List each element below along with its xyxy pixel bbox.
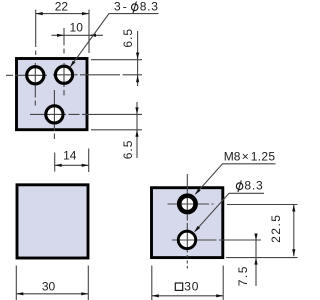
hole A (top-left) [27, 67, 44, 84]
dimension line 7.5 [255, 234, 257, 287]
svg-text:×: × [242, 149, 249, 163]
block body side view 2 [152, 188, 223, 258]
arrow 6.5 top upper (outside) [136, 53, 139, 60]
hole B white interior [54, 65, 74, 85]
leader arrow phi8.3 [194, 226, 200, 232]
extension line bottom edge right (22.5 / 7.5) [226, 257, 298, 259]
centerline hole C vertical [53, 90, 55, 139]
dimension line 10 [52, 34, 104, 36]
svg-text:22.5: 22.5 [269, 214, 283, 243]
leader 3-phi8.3 [70, 14, 159, 68]
centerline hole E horizontal [172, 239, 261, 241]
svg-text:22: 22 [55, 0, 69, 13]
svg-text:6.5: 6.5 [121, 28, 135, 48]
svg-text:14: 14 [63, 148, 77, 162]
hole C white interior [44, 104, 64, 124]
leader M8x1.25 [196, 164, 276, 194]
svg-text:8.3: 8.3 [140, 0, 159, 14]
centerline hole A vertical [34, 63, 36, 106]
svg-text:10: 10 [70, 20, 84, 34]
extension line 14 left [54, 153, 56, 172]
extension line square30 left [151, 266, 153, 300]
hole A white interior [25, 65, 45, 85]
arrow square30 left [152, 294, 159, 297]
dimension line 6.5 top [137, 31, 139, 86]
arrow 10 right (outside) [89, 34, 96, 37]
arrow 7.5 bottom (outside) [254, 258, 257, 265]
dimension line 22 [36, 13, 89, 15]
hole E phi8.3 [178, 231, 196, 249]
centerline hole A horizontal [6, 74, 47, 76]
centerline hole B vertical [63, 63, 65, 96]
arrow 30 left [16, 292, 23, 295]
leader arrow M8 [195, 189, 201, 195]
hole D tapped M8 (thick ring) [179, 196, 195, 212]
arrow 22.5 bottom [292, 249, 295, 256]
dimension line 22.5 [293, 205, 295, 257]
centerline hole B vertical extension above (10 dim) [63, 28, 65, 54]
arrow 7.5 top (outside) [254, 234, 257, 241]
extension line top edge right (6.5 top) [91, 59, 142, 61]
phi symbol of phi8.3 label [236, 180, 242, 192]
dimension line 30 [16, 293, 88, 295]
phi symbol of 3-phi8.3 [132, 1, 138, 13]
svg-text:30: 30 [42, 279, 56, 293]
arrow 6.5 bottom upper (outside) [135, 107, 138, 114]
extension line square30 right [222, 266, 224, 300]
hole D white interior [177, 193, 198, 214]
svg-text:-: - [123, 0, 127, 13]
hole E white interior [177, 230, 197, 250]
svg-text:8.3: 8.3 [244, 179, 263, 193]
svg-text:30: 30 [184, 279, 199, 293]
svg-text:6.5: 6.5 [121, 140, 135, 160]
arrow 6.5 bottom lower (outside) [135, 130, 138, 137]
arrow 30 right [81, 292, 88, 295]
centerline vertical through both holes [186, 174, 188, 269]
extension line top hole center right (22.5) [227, 204, 298, 206]
extension line 30 right [87, 266, 89, 300]
arrow 22 right [82, 12, 89, 15]
dimension line 14 [55, 164, 89, 166]
extension line right edge vertical (for 22/10 dims) [88, 10, 90, 54]
extension line 14 right [88, 149, 90, 173]
dimension line square30 [152, 295, 223, 297]
hole C (bottom-middle) [46, 106, 63, 123]
leader arrow 3-phi8.3 [70, 61, 75, 68]
leader phi8.3 [195, 193, 264, 231]
svg-text:M8: M8 [224, 149, 241, 163]
centerline hole A vertical extension above (22 dim) [35, 10, 37, 55]
svg-text:1.25: 1.25 [251, 149, 276, 163]
centerline hole C horizontal [30, 113, 142, 115]
block body front view [17, 59, 88, 130]
svg-text:3: 3 [114, 0, 121, 13]
centerline hole D horizontal [168, 203, 214, 205]
dimension line 6.5 bottom [136, 102, 138, 158]
extension line 30 left [15, 266, 17, 300]
arrow 6.5 top lower (outside) [136, 75, 139, 82]
arrow 22.5 top [292, 205, 295, 212]
arrow square30 right [216, 294, 223, 297]
square symbol of square-30 [175, 283, 182, 290]
centerline hole B horizontal [53, 74, 142, 76]
arrow 22 left [36, 12, 43, 15]
hole B (top-right) [55, 66, 72, 83]
arrow 10 left (outside) [57, 34, 64, 37]
arrow 14 right [82, 164, 89, 167]
svg-text:7.5: 7.5 [236, 265, 250, 286]
block body side view [17, 185, 88, 258]
arrow 14 left [55, 164, 62, 167]
extension line bottom edge right (6.5 bottom) [91, 129, 142, 131]
